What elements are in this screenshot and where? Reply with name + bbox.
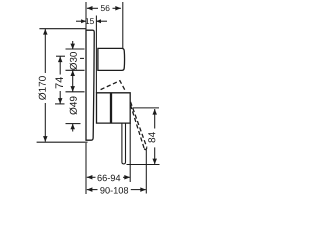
dia170 dim line <box>44 29 46 73</box>
dashed lever up-position wedge <box>101 81 126 92</box>
extension line knob front (56 right) <box>122 2 124 48</box>
arrowhead dia30 bottom <box>70 70 75 76</box>
arrowhead dia170 top <box>43 29 48 35</box>
arrowhead 90-108 left <box>87 187 93 192</box>
arrowhead 84 bottom <box>152 159 157 165</box>
66-94 extension line <box>129 123 131 182</box>
74 bottom tick <box>55 103 65 105</box>
74 aux tick <box>80 57 84 59</box>
lever handle bar <box>122 123 126 164</box>
label 56 <box>101 5 110 11</box>
wall reference line bottom <box>85 143 87 194</box>
dia170 top extension <box>39 28 86 30</box>
label 66-94 <box>97 175 120 182</box>
dia30 top tick <box>66 48 85 50</box>
arrowhead 15 right <box>96 19 101 23</box>
arrowhead 90-108 right <box>140 187 146 192</box>
90-108 dim line <box>87 189 98 191</box>
arrowhead 74 top <box>58 57 63 63</box>
sleeve front line (15 right reference) <box>95 16 97 93</box>
label dia170 <box>39 76 46 100</box>
escutcheon plate <box>86 30 94 140</box>
arrowhead dia170 bottom <box>43 136 48 142</box>
arrowhead 56 left <box>87 6 93 11</box>
arrowhead dia49 top <box>70 86 75 92</box>
body bottom tick <box>66 123 81 125</box>
label 15 <box>86 18 94 24</box>
body internal line <box>110 93 112 123</box>
84 top extension <box>133 107 160 109</box>
arrowhead 74 bottom <box>58 98 63 104</box>
dia30/dia49 double shaft <box>72 70 74 92</box>
label 90-108 <box>100 187 128 194</box>
arrowhead 56 right <box>115 6 121 11</box>
label 84 <box>148 132 155 142</box>
dim 56 line <box>87 7 98 9</box>
dashed lever down-position outline <box>131 102 147 148</box>
74 top tick <box>56 55 65 57</box>
84 dim line <box>154 109 156 129</box>
arrowhead 15 left <box>81 19 86 23</box>
knob bottom tick <box>66 69 85 71</box>
arrowhead dia49 bottom <box>70 124 75 130</box>
valve body <box>97 93 131 123</box>
dia30 dim shaft <box>72 41 74 49</box>
74 dim line <box>59 57 61 75</box>
body top tick <box>66 91 85 93</box>
arrowhead 66-94 left <box>87 175 93 180</box>
66-94 dim line <box>87 176 96 178</box>
arrowhead 66-94 right <box>124 175 130 180</box>
label dia30 <box>70 52 77 70</box>
dim 15 line right <box>96 20 107 22</box>
dim 15 line left <box>76 20 86 22</box>
84 bottom extension <box>127 164 160 166</box>
arrowhead dia30 top <box>70 44 75 50</box>
wall reference line top <box>85 2 87 30</box>
handle knob <box>98 48 125 70</box>
dia170 bottom extension <box>37 141 88 143</box>
90-108 extension line <box>145 150 147 194</box>
arrowhead 84 top <box>152 109 157 115</box>
label 74 <box>55 77 63 88</box>
label dia49 <box>70 97 77 115</box>
dia49 bottom shaft <box>72 124 74 132</box>
